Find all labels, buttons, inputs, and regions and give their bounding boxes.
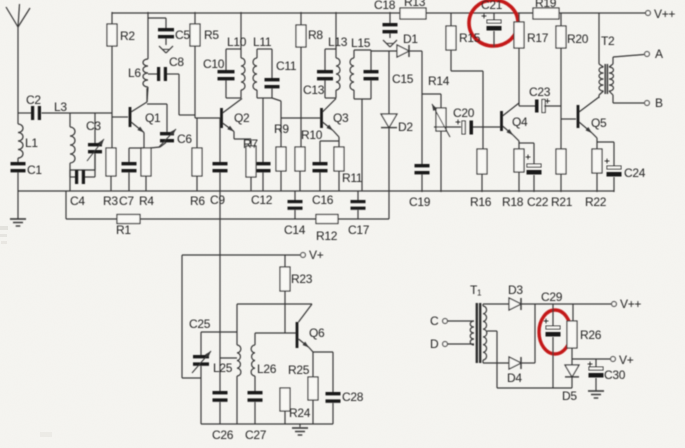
transistor Q1	[129, 102, 161, 133]
wire V+ feed	[182, 254, 300, 256]
terminal V+	[301, 248, 324, 262]
wire	[333, 131, 339, 148]
wire	[613, 177, 615, 192]
capacitor C15	[364, 50, 414, 99]
wire	[110, 176, 112, 191]
wire	[422, 94, 441, 108]
wire	[111, 46, 113, 117]
wire injection line	[219, 118, 221, 162]
resistor R26	[567, 304, 602, 348]
wire	[146, 88, 148, 102]
trimmer capacitor C25	[189, 317, 211, 378]
capacitor C12	[251, 98, 273, 207]
capacitor C18	[374, 0, 398, 38]
wire	[147, 12, 149, 59]
terminal B	[645, 96, 663, 110]
wire	[451, 50, 483, 127]
wire V++ rail psu	[521, 303, 611, 305]
wire tap	[220, 357, 237, 359]
wire	[281, 117, 320, 119]
capacitor C4	[70, 170, 95, 208]
ground	[159, 46, 173, 53]
capacitor C23	[519, 85, 561, 113]
resistor R11	[334, 147, 363, 191]
capacitor C13	[303, 49, 333, 98]
wire	[518, 48, 520, 103]
wire center tap	[487, 331, 497, 388]
wire	[240, 12, 242, 49]
resistor R12	[316, 215, 338, 244]
ground	[588, 391, 604, 398]
capacitor C2	[26, 93, 41, 120]
wire	[533, 175, 535, 192]
diode D1	[397, 32, 418, 57]
capacitor C24	[597, 142, 646, 180]
wire	[147, 104, 167, 132]
wire	[196, 118, 198, 148]
wire	[448, 320, 475, 322]
wire	[17, 173, 19, 192]
resistor R25	[288, 363, 318, 424]
wire	[145, 176, 147, 191]
terminal D	[430, 337, 447, 351]
wire	[609, 91, 644, 103]
capacitor C26	[212, 391, 234, 442]
wire AGC line	[338, 218, 389, 220]
resistor R17	[514, 13, 549, 48]
capacitor C30	[588, 359, 626, 382]
inductor L1	[18, 113, 38, 162]
wire	[513, 135, 519, 149]
capacitor C9	[210, 162, 228, 207]
transformer T1	[470, 283, 487, 363]
capacitor C1	[11, 162, 43, 177]
wire	[194, 46, 196, 118]
wire	[69, 177, 71, 191]
inductor L13	[325, 35, 348, 98]
wire	[300, 47, 302, 147]
wire	[195, 117, 220, 119]
capacitor C8	[148, 55, 184, 81]
wire V++ rail	[112, 12, 400, 14]
wire V++ rail	[559, 12, 646, 14]
wire	[272, 98, 281, 118]
capacitor C10	[203, 49, 235, 98]
resistor R21	[551, 119, 573, 209]
transistor Q2	[220, 99, 250, 132]
wire	[65, 191, 67, 219]
diode D5 zener	[562, 359, 579, 403]
transformer T2	[599, 13, 615, 98]
resistor R8	[296, 12, 323, 47]
resistor R4	[139, 148, 154, 208]
resistor R20	[556, 13, 589, 48]
wire V+ rail psu	[572, 348, 610, 359]
potentiometer R14	[428, 74, 450, 137]
capacitor C28	[313, 352, 364, 424]
wire	[147, 87, 148, 102]
trimmer capacitor C6	[159, 129, 192, 147]
resistor R10	[295, 128, 323, 191]
wire	[483, 360, 509, 363]
red circle annotation	[469, 0, 518, 46]
wire ground rail psu	[497, 387, 572, 389]
wire	[201, 331, 237, 333]
resistor R9	[274, 118, 289, 191]
inductor L11	[253, 35, 272, 98]
capacitor C21	[481, 0, 503, 47]
resistor R13	[400, 0, 426, 19]
wire AGC line	[140, 218, 316, 220]
wire	[448, 343, 475, 345]
inductor L15	[350, 36, 371, 99]
wire	[592, 133, 597, 149]
resistor R1	[116, 215, 140, 238]
ground	[10, 219, 26, 226]
inductor L10	[226, 35, 247, 98]
capacitor C5	[148, 18, 190, 45]
capacitor C19	[409, 94, 431, 209]
wire	[473, 126, 500, 128]
wire	[42, 112, 113, 114]
trimmer capacitor C3	[86, 113, 104, 170]
resistor R18	[502, 149, 524, 209]
resistor R19	[533, 0, 559, 19]
wire	[179, 74, 195, 115]
ground	[292, 424, 308, 435]
wire	[595, 378, 597, 391]
inductor L3	[70, 113, 75, 177]
wire	[361, 99, 363, 191]
resistor R23	[280, 255, 313, 291]
terminal C	[430, 314, 447, 328]
wire	[18, 112, 31, 114]
wire	[196, 176, 198, 191]
terminal V++	[646, 7, 676, 21]
wire	[284, 291, 286, 333]
transistor Q6	[296, 322, 325, 348]
resistor R16	[470, 127, 492, 209]
capacitor C27	[245, 391, 267, 442]
wire ground bus osc	[201, 378, 333, 424]
wire	[409, 51, 422, 94]
resistor R6	[190, 118, 205, 208]
resistor R3	[103, 117, 118, 208]
capacitor C16	[312, 141, 339, 207]
wire	[17, 191, 19, 219]
node L3 top	[54, 100, 67, 114]
red circle annotation 2	[539, 310, 571, 354]
capacitor C20	[434, 106, 475, 135]
wire	[237, 304, 312, 322]
wire	[609, 55, 644, 68]
inductor L6	[128, 59, 148, 87]
diode D4	[507, 357, 522, 385]
wire	[561, 48, 576, 119]
wire	[182, 255, 201, 378]
transistor Q3	[320, 99, 349, 131]
wire	[335, 12, 337, 49]
wire	[70, 154, 95, 170]
resistor R2	[107, 12, 135, 46]
wire	[112, 116, 128, 118]
wire	[371, 50, 397, 51]
transistor Q5	[577, 97, 607, 133]
resistor R7	[234, 132, 258, 192]
diode D3	[508, 283, 523, 310]
wire	[128, 173, 130, 192]
inductor L25	[213, 304, 241, 424]
wire	[255, 332, 296, 334]
resistor R5	[190, 12, 219, 46]
terminal V+ psu	[611, 353, 634, 367]
capacitor C11	[265, 49, 297, 98]
terminal V++ psu	[612, 297, 642, 311]
resistor R15	[446, 13, 481, 50]
wire ground bus	[18, 190, 614, 192]
wire	[150, 147, 160, 148]
capacitor C7	[119, 148, 144, 208]
inductor L26	[251, 333, 277, 391]
wire injection line	[219, 173, 221, 392]
capacitor C22	[519, 143, 549, 209]
capacitor C29	[541, 290, 563, 388]
wire	[521, 304, 535, 363]
capacitor C17	[348, 191, 370, 237]
scan smudge marks	[0, 226, 52, 437]
wire	[440, 131, 442, 192]
antenna	[6, 4, 30, 113]
wire	[65, 177, 67, 191]
resistor R24	[280, 388, 311, 424]
wire AGC line	[66, 218, 117, 220]
terminal A	[645, 47, 663, 61]
diode D2	[381, 51, 413, 219]
wire V++ rail	[426, 12, 533, 14]
resistor R22	[585, 149, 607, 209]
capacitor C14	[284, 191, 306, 237]
ground	[383, 40, 397, 47]
wire	[309, 348, 313, 378]
transistor Q4	[500, 103, 528, 135]
wire	[143, 133, 145, 149]
wire	[483, 304, 509, 306]
